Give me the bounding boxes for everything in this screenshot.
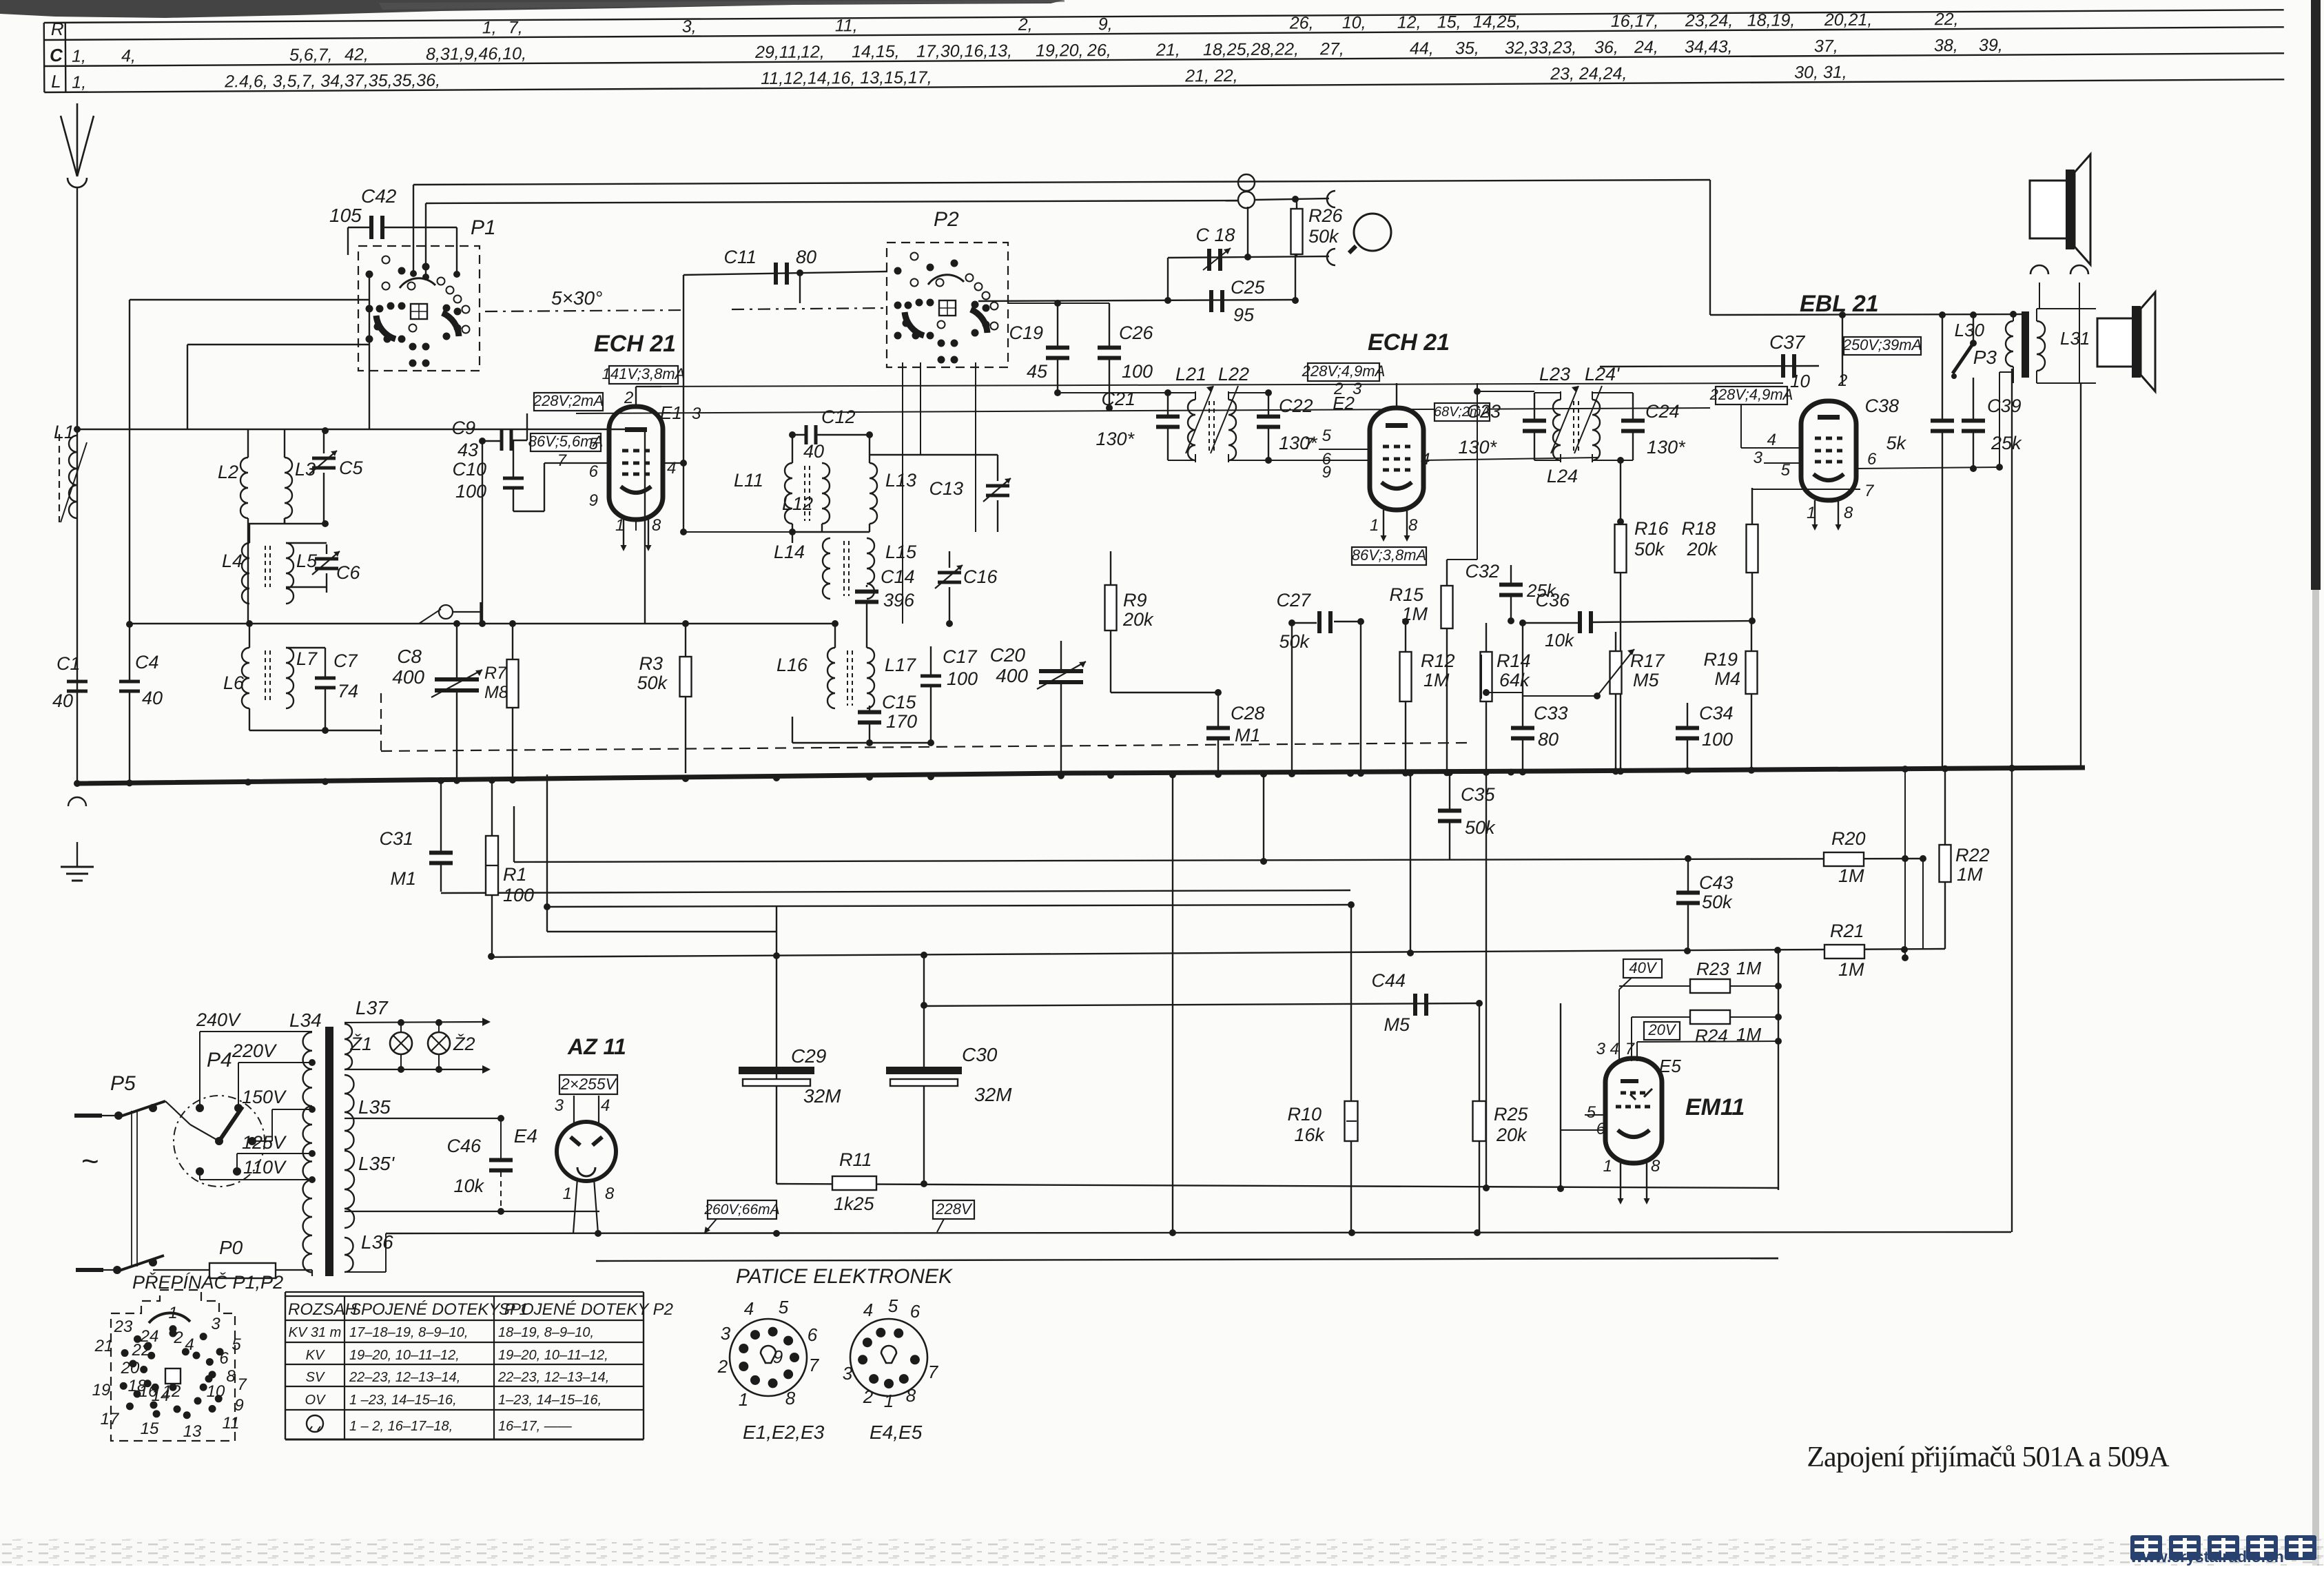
speaker main bbox=[2097, 318, 2133, 367]
wire E3 pin7 to R18 bbox=[1752, 489, 1860, 490]
svg-text:9,: 9, bbox=[1098, 14, 1113, 34]
svg-text:26,: 26, bbox=[1087, 41, 1111, 60]
svg-text:C35: C35 bbox=[1461, 784, 1496, 805]
tube socket E4,E5 keyhole bbox=[881, 1346, 896, 1363]
wire pin7 line bbox=[1637, 1041, 1778, 1042]
wire lamp drops bbox=[400, 1023, 402, 1032]
svg-text:C26: C26 bbox=[1119, 322, 1154, 343]
svg-text:R26: R26 bbox=[1308, 205, 1344, 226]
svg-text:5: 5 bbox=[779, 1297, 789, 1317]
svg-text:8: 8 bbox=[605, 1185, 615, 1203]
svg-text:C29: C29 bbox=[791, 1045, 826, 1067]
svg-text:C11: C11 bbox=[723, 247, 757, 267]
svg-text:KV: KV bbox=[306, 1348, 325, 1363]
wire vertical to R2 line bbox=[1410, 773, 1411, 953]
svg-text:11,: 11, bbox=[835, 16, 858, 35]
svg-text:L37: L37 bbox=[356, 997, 389, 1018]
wire osc tank bottom bbox=[792, 524, 793, 543]
svg-text:1M: 1M bbox=[1423, 670, 1450, 690]
tube socket E1,E2,E3 keyhole bbox=[761, 1346, 776, 1363]
svg-text:400: 400 bbox=[996, 665, 1028, 686]
svg-text:L: L bbox=[51, 71, 61, 92]
svg-text:32M: 32M bbox=[803, 1085, 841, 1107]
svg-text:SPOJENÉ DOTEKY P2: SPOJENÉ DOTEKY P2 bbox=[499, 1300, 673, 1319]
svg-text:R25: R25 bbox=[1494, 1104, 1529, 1125]
wire lamp bottom rail bbox=[345, 1069, 482, 1070]
svg-text:SV: SV bbox=[306, 1370, 325, 1385]
svg-text:1k25: 1k25 bbox=[834, 1193, 875, 1214]
wire R17 tap line bbox=[1523, 695, 1597, 697]
ground symbol bbox=[76, 842, 78, 867]
svg-text:130*: 130* bbox=[1279, 433, 1318, 453]
svg-text:L23: L23 bbox=[1539, 364, 1570, 384]
wire C36 left drop bbox=[1522, 623, 1523, 693]
svg-text:C46: C46 bbox=[446, 1136, 482, 1156]
svg-text:Zapojení přijímačů 501A a 509A: Zapojení přijímačů 501A a 509A bbox=[1807, 1442, 2170, 1473]
svg-text:C42: C42 bbox=[361, 185, 397, 207]
svg-text:Ž1: Ž1 bbox=[349, 1033, 372, 1054]
IF transformer L23/L24' coils bbox=[1553, 400, 1561, 460]
tube socket E4,E5 pins bbox=[869, 1374, 878, 1384]
svg-text:C4: C4 bbox=[135, 652, 159, 673]
svg-text:C23: C23 bbox=[1466, 401, 1501, 422]
svg-text:141V;3,8mA: 141V;3,8mA bbox=[602, 365, 686, 382]
svg-text:6: 6 bbox=[808, 1324, 818, 1345]
wire lamp top rail bbox=[345, 1022, 482, 1023]
svg-text:P2: P2 bbox=[934, 208, 959, 231]
svg-text:19: 19 bbox=[92, 1381, 111, 1399]
svg-text:5×30°: 5×30° bbox=[551, 287, 602, 309]
rotary selector P4 rotor bbox=[219, 1107, 243, 1141]
svg-text:L15: L15 bbox=[885, 542, 917, 562]
wire 228V heater line bbox=[777, 1184, 1778, 1188]
svg-text:100: 100 bbox=[1702, 729, 1733, 750]
wire bottom B+ return line bbox=[386, 1232, 2011, 1233]
tube socket E1,E2,E3 circle bbox=[730, 1319, 807, 1396]
svg-text:86V;3,8mA: 86V;3,8mA bbox=[1352, 546, 1426, 564]
svg-text:C 18: C 18 bbox=[1195, 225, 1235, 245]
svg-text:E1,E2,E3: E1,E2,E3 bbox=[743, 1422, 825, 1443]
svg-text:6: 6 bbox=[1596, 1120, 1606, 1138]
svg-text:1M: 1M bbox=[1838, 865, 1864, 886]
svg-text:10,: 10, bbox=[1342, 13, 1366, 32]
svg-text:C1: C1 bbox=[56, 653, 81, 674]
svg-text:36,: 36, bbox=[1594, 38, 1618, 57]
tube E2 heater pins bbox=[1383, 510, 1384, 539]
svg-text:P5: P5 bbox=[110, 1072, 136, 1095]
svg-text:23, 24,24,: 23, 24,24, bbox=[1550, 64, 1627, 84]
IF transformer L21/L22 coils bbox=[1188, 400, 1195, 460]
svg-text:R10: R10 bbox=[1287, 1104, 1322, 1125]
svg-text:3: 3 bbox=[1754, 449, 1763, 467]
svg-text:4: 4 bbox=[1767, 431, 1776, 449]
svg-text:C44: C44 bbox=[1371, 970, 1406, 991]
svg-text:1: 1 bbox=[168, 1304, 177, 1322]
prepinac extra studs bbox=[169, 1330, 177, 1337]
switch P5 top blade bbox=[119, 1101, 165, 1117]
svg-text:5k: 5k bbox=[1886, 433, 1906, 453]
switch P5 link verticals bbox=[131, 1111, 132, 1267]
wire E1 pin2 long line bbox=[636, 383, 1783, 387]
svg-text:R12: R12 bbox=[1421, 650, 1455, 671]
svg-text:~: ~ bbox=[81, 1145, 99, 1178]
band switch P1 dashed housing bbox=[358, 246, 480, 371]
wire hook drops bbox=[2039, 283, 2040, 309]
svg-text:M5: M5 bbox=[1633, 670, 1659, 690]
svg-text:240V: 240V bbox=[196, 1009, 242, 1030]
wire E1 cathode drop bbox=[635, 520, 637, 531]
wire E2 pin4 line bbox=[1423, 458, 1598, 460]
wire R25 column bbox=[1479, 1003, 1480, 1101]
headphone hooks bbox=[2030, 265, 2048, 274]
IF transformer L21 frame leads bbox=[1195, 391, 1196, 400]
svg-text:228V: 228V bbox=[935, 1200, 973, 1218]
svg-text:228V;2mA: 228V;2mA bbox=[533, 392, 604, 409]
wire R2 R21 line bbox=[491, 949, 1945, 957]
svg-text:40: 40 bbox=[52, 690, 73, 711]
wire E1 grid top lead bbox=[635, 387, 637, 407]
svg-text:22,: 22, bbox=[1934, 10, 1959, 29]
svg-text:C19: C19 bbox=[1009, 322, 1043, 343]
svg-text:95: 95 bbox=[1233, 305, 1255, 325]
svg-text:P1: P1 bbox=[471, 216, 496, 239]
svg-text:9: 9 bbox=[1322, 463, 1331, 482]
svg-text:3: 3 bbox=[1596, 1040, 1606, 1058]
wire EM11 grid feed vertical bbox=[1350, 905, 1352, 1101]
wire P5 blade to P4 bbox=[165, 1101, 190, 1125]
svg-text:30, 31,: 30, 31, bbox=[1794, 63, 1847, 82]
band switch P2 open contacts bbox=[911, 279, 918, 287]
svg-text:L35': L35' bbox=[358, 1153, 395, 1174]
wire L3-C5 bottom tie bbox=[248, 523, 325, 524]
svg-text:1M: 1M bbox=[1957, 864, 1983, 885]
wire E1 pin3 long line bbox=[576, 408, 1710, 413]
wire C25 line bbox=[978, 300, 1295, 301]
wire C11 left drop bbox=[683, 275, 684, 532]
speaker top bbox=[2030, 181, 2067, 238]
svg-text:18–19, 8–9–10,: 18–19, 8–9–10, bbox=[498, 1325, 594, 1340]
svg-text:C25: C25 bbox=[1231, 277, 1266, 298]
svg-text:1 – 2, 16–17–18,: 1 – 2, 16–17–18, bbox=[349, 1419, 453, 1434]
wire E2 pin7 line bbox=[1319, 449, 1370, 450]
wire C9 left drop bbox=[482, 441, 483, 624]
wire AF vertical bbox=[1172, 773, 1173, 1233]
svg-text:80: 80 bbox=[1538, 729, 1559, 750]
wire IF2 top feed bbox=[1474, 388, 1481, 395]
svg-text:44,: 44, bbox=[1410, 39, 1434, 58]
wire C13 top rail bbox=[870, 454, 998, 455]
tube E2 envelope bbox=[1370, 408, 1423, 510]
wire gram line to R26 bbox=[1255, 198, 1329, 200]
wire vertical x2265 bbox=[1560, 1003, 1561, 1189]
wire detector vertical a bbox=[776, 907, 777, 1184]
voltage box 68V 2mA bbox=[1434, 403, 1490, 421]
wire L21 tank bbox=[1168, 392, 1195, 393]
svg-text:21: 21 bbox=[94, 1337, 114, 1355]
gram jack hooks bbox=[1327, 191, 1335, 207]
ground hook below bus bbox=[68, 797, 86, 806]
wire C44 line bbox=[924, 1003, 1479, 1006]
svg-text:29,11,: 29,11, bbox=[754, 43, 802, 62]
wire long AVC line 1 bbox=[514, 859, 1923, 862]
svg-text:1,: 1, bbox=[72, 47, 86, 66]
wire C11 line bbox=[683, 271, 887, 275]
top edge scan smudge bbox=[0, 0, 1065, 18]
svg-text:5: 5 bbox=[888, 1295, 898, 1316]
svg-text:P4: P4 bbox=[207, 1049, 232, 1071]
svg-text:19–20, 10–11–12,: 19–20, 10–11–12, bbox=[498, 1348, 608, 1363]
svg-text:2: 2 bbox=[624, 389, 633, 407]
svg-text:8: 8 bbox=[652, 516, 661, 535]
svg-text:C14: C14 bbox=[881, 566, 915, 587]
svg-text:8: 8 bbox=[906, 1385, 916, 1406]
svg-text:16,17,: 16,17, bbox=[1611, 12, 1659, 31]
core dashes L11L12 bbox=[804, 466, 805, 521]
svg-text:L6: L6 bbox=[223, 673, 245, 693]
svg-text:C33: C33 bbox=[1534, 703, 1568, 724]
svg-text:PŘEPÍNAČ P1,P2: PŘEPÍNAČ P1,P2 bbox=[132, 1271, 283, 1293]
svg-text:2×255V: 2×255V bbox=[560, 1075, 618, 1093]
wire EBL top distribution bbox=[1710, 314, 2022, 315]
svg-text:110V: 110V bbox=[243, 1157, 287, 1178]
svg-text:18,25,28,22,: 18,25,28,22, bbox=[1203, 40, 1299, 60]
svg-text:15: 15 bbox=[141, 1419, 159, 1438]
svg-text:L5: L5 bbox=[296, 551, 318, 571]
prepinac dashed housing bbox=[111, 1290, 235, 1441]
svg-text:9: 9 bbox=[589, 491, 598, 510]
svg-text:12,: 12, bbox=[801, 42, 825, 61]
wire E4 pin8 lead bbox=[594, 1178, 598, 1233]
voltage box 228V 49mA bbox=[1308, 363, 1379, 381]
wire antenna horizontal bbox=[77, 429, 645, 430]
wire C27 drops bbox=[1291, 623, 1293, 773]
wire EM11 left lead pin5 bbox=[1585, 1114, 1605, 1116]
svg-text:PATICE ELEKTRONEK: PATICE ELEKTRONEK bbox=[736, 1265, 954, 1288]
voltage box 228V 49mA second bbox=[1716, 387, 1787, 404]
svg-text:5,6,7,: 5,6,7, bbox=[289, 45, 333, 65]
wire P1 bottom drop bbox=[369, 274, 370, 429]
svg-text:1M: 1M bbox=[1838, 959, 1864, 980]
svg-text:15,: 15, bbox=[1437, 12, 1461, 32]
wire bottom heater line bbox=[596, 1258, 1778, 1261]
wire L5 tank ties bbox=[286, 542, 327, 544]
svg-text:6: 6 bbox=[1867, 450, 1877, 469]
bus junction dots bbox=[74, 780, 81, 787]
svg-text:R14: R14 bbox=[1497, 650, 1531, 671]
wire osc coil feed rail bbox=[645, 623, 835, 624]
svg-text:1,: 1, bbox=[482, 18, 497, 37]
svg-text:5: 5 bbox=[1781, 461, 1791, 480]
svg-text:74: 74 bbox=[338, 681, 358, 701]
svg-text:R: R bbox=[51, 19, 64, 39]
svg-text:1: 1 bbox=[884, 1391, 894, 1411]
svg-text:21, 22,: 21, 22, bbox=[1184, 66, 1238, 85]
wire P0 to transformer bbox=[276, 1269, 312, 1271]
svg-text:8: 8 bbox=[785, 1388, 796, 1408]
svg-text:42,: 42, bbox=[345, 45, 369, 64]
transformer core dashes L6L7 bbox=[265, 650, 266, 703]
wire dashed gang link horizontal bbox=[381, 743, 1468, 751]
svg-text:2.4,6, 3,5,7, 34,37,35,35,36,: 2.4,6, 3,5,7, 34,37,35,35,36, bbox=[224, 71, 440, 92]
svg-text:L16: L16 bbox=[777, 655, 808, 675]
tube E3 envelope bbox=[1801, 401, 1856, 500]
svg-text:R22: R22 bbox=[1955, 845, 1990, 865]
svg-text:4: 4 bbox=[601, 1096, 610, 1115]
svg-text:L22: L22 bbox=[1218, 364, 1249, 384]
svg-text:64k: 64k bbox=[1499, 670, 1530, 690]
svg-text:C6: C6 bbox=[336, 562, 360, 583]
svg-text:1–23, 14–15–16,: 1–23, 14–15–16, bbox=[498, 1393, 601, 1408]
svg-text:11,12,14,16, 13,15,17,: 11,12,14,16, 13,15,17, bbox=[761, 68, 932, 88]
svg-text:7,: 7, bbox=[508, 18, 523, 37]
svg-text:EBL 21: EBL 21 bbox=[1800, 291, 1879, 317]
svg-text:1: 1 bbox=[739, 1389, 748, 1410]
svg-text:C31: C31 bbox=[379, 828, 413, 849]
wire AVC line 3 left riser bbox=[546, 775, 548, 932]
svg-text:R15: R15 bbox=[1389, 584, 1424, 605]
band switch P2 contact studs bbox=[894, 267, 902, 275]
svg-text:4: 4 bbox=[744, 1298, 754, 1319]
svg-text:R18: R18 bbox=[1681, 518, 1716, 539]
gram input circles bbox=[1238, 174, 1255, 191]
wire R9 elbow to C28 bbox=[1111, 692, 1218, 693]
svg-text:L21: L21 bbox=[1175, 364, 1206, 384]
wire right frame vertical bbox=[2011, 369, 2013, 1232]
svg-text:32,33,23,: 32,33,23, bbox=[1505, 38, 1576, 58]
tube socket E1,E2,E3 pins bbox=[750, 1375, 760, 1385]
wire under R20 bbox=[1922, 859, 1924, 950]
mains terminal top bbox=[74, 1114, 102, 1118]
core dashes L16L17 bbox=[847, 650, 848, 706]
svg-text:2: 2 bbox=[1838, 371, 1847, 390]
svg-text:C38: C38 bbox=[1864, 396, 1899, 416]
wire E1 pin7 line bbox=[544, 462, 609, 464]
svg-text:105: 105 bbox=[329, 205, 362, 226]
svg-text:OV: OV bbox=[305, 1393, 327, 1408]
wire L7 tank ties bbox=[286, 647, 325, 648]
IF transformer L23 frame leads bbox=[1560, 391, 1561, 400]
core dashes L14L15 bbox=[843, 541, 845, 596]
voltage box 20V bbox=[1644, 1022, 1680, 1040]
band switch P2 center bbox=[939, 300, 956, 316]
tube E5 heater pins bbox=[1620, 1163, 1621, 1202]
svg-text:ECH 21: ECH 21 bbox=[594, 331, 676, 357]
svg-text:C12: C12 bbox=[821, 407, 856, 427]
svg-text:11: 11 bbox=[223, 1414, 240, 1433]
wire top feed drop right bbox=[1709, 180, 1711, 315]
wire EM11 right vertical bbox=[1778, 950, 1779, 1190]
svg-text:E4: E4 bbox=[514, 1125, 537, 1147]
svg-text:R19: R19 bbox=[1703, 649, 1738, 670]
wire L13 top lead bbox=[869, 435, 870, 463]
wire transformer bottom leads bbox=[2013, 367, 2014, 383]
svg-text:50k: 50k bbox=[1279, 631, 1310, 652]
wire E2 grid top lead bbox=[1396, 383, 1397, 408]
wire L11 top lead bbox=[792, 435, 793, 463]
voltage box 141V bbox=[609, 366, 678, 384]
svg-text:R20: R20 bbox=[1831, 828, 1866, 849]
transformer L34 primary coil bbox=[303, 1032, 312, 1272]
wire L36 to heater line bbox=[345, 1271, 386, 1273]
component index table frame bbox=[44, 10, 2284, 23]
wire L24 tank bbox=[1592, 392, 1633, 393]
svg-text:6: 6 bbox=[219, 1349, 229, 1368]
prepinac center square bbox=[165, 1368, 181, 1384]
svg-text:L13: L13 bbox=[885, 470, 916, 491]
svg-text:24,: 24, bbox=[1634, 38, 1658, 57]
tube E5 envelope bbox=[1605, 1058, 1662, 1163]
wire R24 from pin4 bbox=[1631, 1017, 1632, 1061]
svg-text:2: 2 bbox=[863, 1386, 874, 1407]
svg-text:100: 100 bbox=[455, 481, 486, 502]
wire 40V to grid bbox=[1619, 978, 1632, 989]
svg-text:3: 3 bbox=[843, 1363, 853, 1384]
watermark CJK logo bbox=[2130, 1535, 2162, 1560]
svg-text:L34: L34 bbox=[289, 1009, 322, 1031]
svg-text:C34: C34 bbox=[1699, 703, 1734, 724]
svg-text:125V: 125V bbox=[242, 1132, 287, 1153]
svg-text:37,: 37, bbox=[1814, 37, 1838, 56]
svg-text:50k: 50k bbox=[1634, 539, 1665, 560]
svg-text:10k: 10k bbox=[453, 1176, 484, 1196]
wire R15 top bbox=[1447, 559, 1477, 560]
wire C42 left drop bbox=[347, 227, 349, 255]
svg-text:22–23, 12–13–14,: 22–23, 12–13–14, bbox=[497, 1370, 609, 1385]
svg-text:C15: C15 bbox=[882, 692, 917, 712]
svg-text:50k: 50k bbox=[1702, 892, 1733, 912]
svg-text:R21: R21 bbox=[1830, 921, 1864, 941]
wire P2 feed drop bbox=[799, 273, 801, 303]
svg-text:19–20, 10–11–12,: 19–20, 10–11–12, bbox=[349, 1348, 460, 1363]
svg-text:L24': L24' bbox=[1585, 364, 1620, 384]
svg-text:7: 7 bbox=[237, 1375, 247, 1394]
wire HT center tap bbox=[345, 1118, 501, 1119]
svg-text:1: 1 bbox=[1603, 1157, 1612, 1176]
wire long AVC line 3 bbox=[547, 905, 1351, 907]
wire L23 tank bbox=[1534, 392, 1561, 393]
tube E1 envelope bbox=[609, 407, 663, 520]
output transformer core bbox=[2022, 311, 2029, 378]
svg-text:43: 43 bbox=[457, 440, 478, 460]
svg-text:C32: C32 bbox=[1465, 561, 1499, 582]
wire C18 line bbox=[1168, 256, 1329, 258]
wire P1 left feeds b bbox=[187, 344, 369, 345]
svg-text:L30: L30 bbox=[1955, 320, 1985, 340]
svg-text:1 –23, 14–15–16,: 1 –23, 14–15–16, bbox=[349, 1393, 457, 1408]
antenna bbox=[61, 116, 77, 176]
svg-text:R23: R23 bbox=[1696, 958, 1729, 979]
voltage box 2x255V bbox=[559, 1075, 617, 1094]
svg-text:M8: M8 bbox=[484, 683, 508, 702]
wire C30 column bbox=[923, 955, 925, 1068]
svg-text:3: 3 bbox=[555, 1096, 564, 1115]
svg-text:L4: L4 bbox=[222, 551, 243, 571]
wire E3 pin6 drop bbox=[1999, 372, 2000, 467]
svg-text:1,: 1, bbox=[72, 73, 86, 92]
wire L35' tap line bbox=[345, 1211, 599, 1212]
svg-text:1M: 1M bbox=[1736, 958, 1761, 978]
svg-text:M4: M4 bbox=[1714, 668, 1740, 689]
svg-text:ROZSAH: ROZSAH bbox=[288, 1300, 358, 1319]
svg-text:C7: C7 bbox=[333, 650, 358, 671]
svg-text:C27: C27 bbox=[1276, 590, 1311, 611]
svg-text:L14: L14 bbox=[774, 542, 805, 562]
svg-text:6: 6 bbox=[910, 1301, 921, 1322]
rozsah table frame bbox=[285, 1291, 644, 1293]
svg-text:17,30,16,13,: 17,30,16,13, bbox=[916, 41, 1012, 61]
svg-text:R16: R16 bbox=[1634, 518, 1669, 539]
wire transformer top leads bbox=[2013, 314, 2014, 321]
